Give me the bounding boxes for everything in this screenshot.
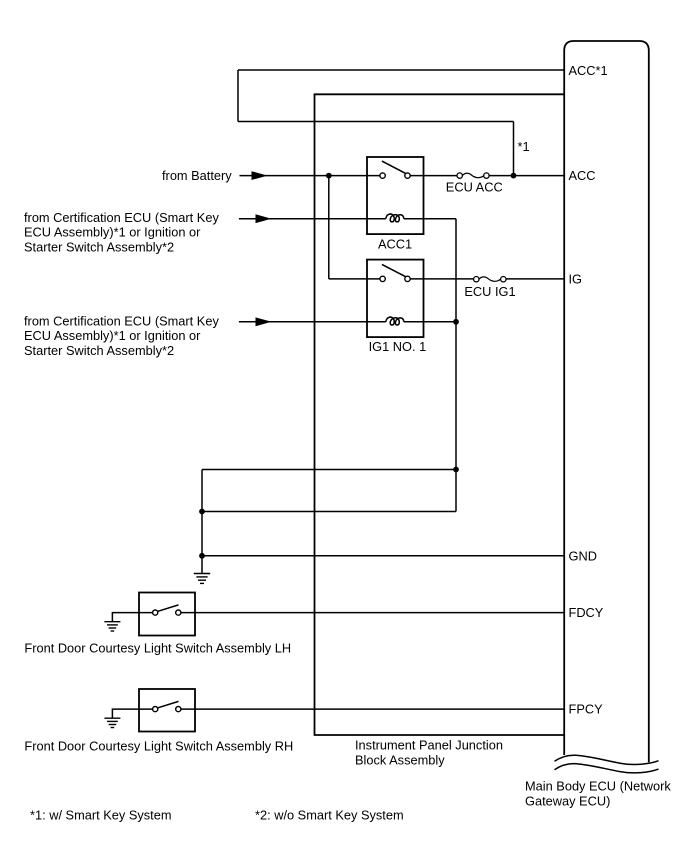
junction dot ground left lower: [199, 553, 205, 559]
wire branch to IG1 switch: [329, 278, 380, 280]
ground symbol RH: [104, 718, 120, 727]
wire IG1 coil to vertical bus: [404, 321, 456, 323]
svg-text:IG1 NO. 1: IG1 NO. 1: [369, 339, 427, 354]
wire fuse to ECU ACC pin: [489, 175, 564, 177]
svg-text:ECU IG1: ECU IG1: [464, 284, 515, 299]
svg-text:Front Door Courtesy Light Swit: Front Door Courtesy Light Switch Assembl…: [24, 640, 291, 655]
Instrument Panel Junction Block outline: [315, 94, 565, 735]
junction dot IG1 coil: [453, 319, 459, 325]
svg-text:Instrument Panel Junction: Instrument Panel Junction: [355, 738, 503, 753]
wire from Battery to ACC1 switch: [240, 175, 381, 177]
wire coil return vertical bus: [455, 219, 457, 512]
ECU break wave 2: [555, 764, 659, 773]
wire cert ECU arrow to ACC1 coil: [239, 218, 386, 220]
wire FPCY: [181, 708, 564, 710]
svg-text:ECU ACC: ECU ACC: [446, 180, 503, 195]
relay ACC1 switch blade: [382, 161, 406, 173]
svg-text:from Certification ECU (Smart: from Certification ECU (Smart Key: [24, 314, 219, 329]
svg-text:*1: w/ Smart Key System: *1: w/ Smart Key System: [30, 808, 172, 823]
wire cert ECU arrow to IG1 coil: [239, 321, 386, 323]
svg-text:ACC*1: ACC*1: [569, 63, 608, 78]
svg-text:ACC1: ACC1: [378, 236, 412, 251]
RH switch blade: [158, 701, 179, 707]
wire ACC1 switch to fuse: [410, 175, 457, 177]
wire battery branch vertical to IG1: [328, 176, 330, 279]
wire fuse to ECU IG pin: [506, 278, 564, 280]
svg-text:Main Body ECU (Network: Main Body ECU (Network: [525, 779, 671, 794]
svg-text:Starter Switch Assembly*2: Starter Switch Assembly*2: [24, 343, 174, 358]
junction dot ground loop: [453, 467, 459, 473]
wire *1 branch horizontal: [238, 121, 514, 123]
svg-text:*2: w/o Smart Key System: *2: w/o Smart Key System: [255, 808, 404, 823]
switch box RH: [139, 689, 195, 732]
wire *1 branch vertical: [513, 122, 515, 176]
wire LH switch to ground: [112, 613, 152, 622]
junction dot ground left upper: [199, 509, 205, 515]
relay IG1 coil: [386, 317, 404, 325]
arrow from Battery: [252, 171, 268, 180]
wire ACC1 coil to vertical bus: [404, 218, 456, 220]
LH switch blade: [158, 605, 179, 611]
svg-text:*1: *1: [518, 139, 530, 154]
wire ACC*1 vertical left: [237, 70, 239, 122]
arrow cert ECU 2: [256, 317, 272, 326]
switch box LH: [139, 593, 195, 636]
wire IG1 switch to fuse: [410, 278, 474, 280]
fuse ECU IG1: [474, 277, 506, 282]
svg-text:Gateway ECU): Gateway ECU): [525, 794, 610, 809]
arrow cert ECU 1: [256, 214, 272, 223]
wire ground loop upper: [202, 469, 456, 471]
RH switch contacts: [153, 707, 158, 712]
svg-text:FPCY: FPCY: [569, 702, 604, 717]
svg-text:from Certification ECU (Smart: from Certification ECU (Smart Key: [24, 210, 219, 225]
relay IG1 switch blade: [382, 264, 406, 276]
junction dot *1 on ACC: [511, 173, 517, 179]
LH switch contacts: [153, 610, 158, 615]
wire ACC*1 horizontal: [238, 69, 564, 71]
relay ACC1 box: [367, 157, 424, 234]
relay IG1 box: [367, 260, 424, 338]
svg-text:GND: GND: [569, 548, 597, 563]
ground symbol main: [194, 574, 210, 584]
wire ground loop lower: [202, 511, 456, 513]
wire GND to ECU: [202, 555, 564, 557]
svg-text:FDCY: FDCY: [569, 605, 604, 620]
svg-text:ECU Assembly)*1 or Ignition or: ECU Assembly)*1 or Ignition or: [24, 225, 201, 240]
junction dot battery branch: [326, 173, 332, 179]
ground symbol LH: [104, 622, 120, 631]
svg-text:Starter Switch Assembly*2: Starter Switch Assembly*2: [24, 239, 174, 254]
svg-text:Front Door Courtesy Light Swit: Front Door Courtesy Light Switch Assembl…: [24, 739, 293, 754]
wire FDCY: [181, 612, 564, 614]
svg-text:from Battery: from Battery: [162, 168, 232, 183]
Main Body ECU outline U1: [564, 41, 649, 762]
svg-text:Block Assembly: Block Assembly: [355, 753, 445, 768]
svg-text:ACC: ACC: [569, 168, 596, 183]
ECU break wave 1: [555, 755, 659, 764]
relay ACC1 coil: [386, 214, 404, 222]
svg-text:ECU Assembly)*1 or Ignition or: ECU Assembly)*1 or Ignition or: [24, 328, 201, 343]
relay IG1 switch contacts: [380, 276, 385, 281]
wire RH switch to ground: [112, 709, 152, 718]
relay ACC1 switch contacts: [380, 173, 385, 178]
wire ground vertical left: [201, 470, 203, 574]
svg-text:IG: IG: [569, 271, 583, 286]
fuse ECU ACC: [457, 173, 489, 178]
